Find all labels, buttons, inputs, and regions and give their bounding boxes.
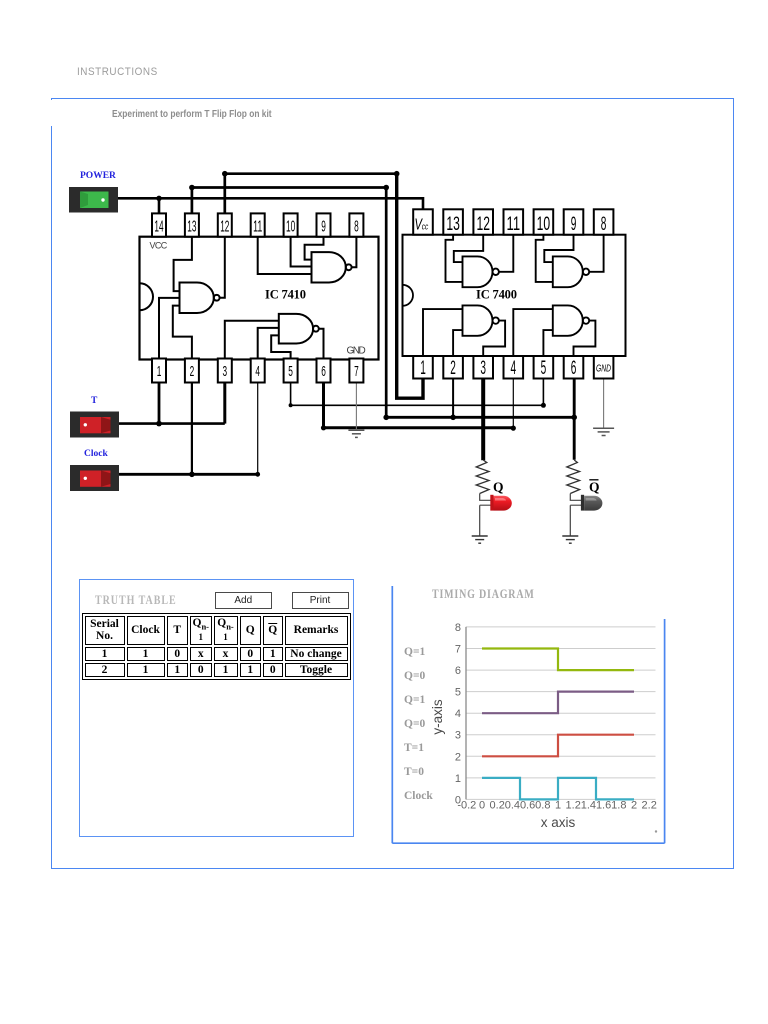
nand gate G1 IC1 [180, 283, 220, 314]
pin 9 IC1 [317, 213, 331, 236]
svg-text:T=0: T=0 [404, 766, 424, 778]
chart y axis line [465, 627, 467, 800]
wire GD input from pin4 [513, 309, 553, 356]
svg-text:Clock: Clock [404, 790, 433, 802]
timing diagram heading [432, 587, 535, 602]
svg-text:Q=1: Q=1 [404, 694, 425, 706]
pin 4 IC1 [251, 359, 265, 383]
pin 2 IC2 [443, 356, 463, 379]
pin 5 IC1 [284, 359, 298, 383]
legend labels left [404, 646, 433, 802]
wire G2 output to pin8 [352, 237, 357, 268]
svg-text:5: 5 [455, 687, 461, 699]
svg-text:2: 2 [631, 800, 637, 812]
wire IC2 GND to ground [603, 378, 605, 428]
switch T [70, 412, 119, 438]
svg-text:1.2: 1.2 [566, 800, 581, 812]
svg-text:0.2: 0.2 [490, 800, 505, 812]
nand gate GC IC2 [463, 305, 499, 335]
pin 3 IC2 [473, 356, 493, 379]
svg-text:y-axis: y-axis [430, 699, 445, 735]
chart gridlines [466, 627, 656, 800]
label Qbar [589, 480, 600, 495]
pin 10 IC2 [534, 209, 554, 235]
pin 5 IC2 [534, 356, 554, 379]
IC U2 7410 body [140, 237, 379, 360]
svg-text:8: 8 [455, 622, 461, 634]
LED Qbar [581, 495, 602, 511]
svg-text:3: 3 [455, 730, 461, 742]
label Q [493, 480, 504, 495]
nand gate GD IC2 [553, 305, 589, 335]
wire bus IC1 pin13 down [189, 185, 389, 418]
svg-text:T=1: T=1 [404, 742, 424, 754]
pin 12 IC1 [218, 213, 232, 236]
pin 13 IC2 [443, 209, 463, 235]
wire IC1 pin7 to ground [355, 380, 357, 430]
series Qbar purple [482, 692, 634, 714]
nand gate GA IC2 [463, 256, 499, 287]
IC U1 7400 body [403, 235, 626, 356]
svg-text:0.6: 0.6 [520, 800, 535, 812]
wire GC input from pin1 [423, 309, 463, 356]
svg-text:Q=1: Q=1 [404, 646, 425, 658]
wire IC1 pin1 stub [158, 380, 161, 423]
series T red [482, 735, 634, 757]
LED Q [490, 495, 512, 511]
wire G3 input from pin4 [258, 328, 279, 360]
wire G2 input from pin11 [258, 237, 312, 274]
wire G3 output to pin6 [319, 329, 324, 360]
wire GA input from pin12 [454, 235, 483, 262]
Clock label [84, 449, 108, 459]
wire GC input from pin2 [453, 330, 462, 356]
pin 6 IC2 [564, 356, 584, 379]
pin Vcc IC2 [413, 209, 433, 234]
pin 10 IC1 [284, 213, 298, 236]
svg-text:x axis: x axis [541, 815, 576, 830]
wire IC2 pin4 stub [511, 378, 516, 431]
mark small dot [655, 830, 657, 832]
ground IC2 [593, 428, 614, 435]
pin 2 IC1 [185, 359, 199, 383]
pin GND IC2 [594, 356, 614, 379]
pin 1 IC2 [413, 356, 433, 379]
pin 8 IC1 [349, 213, 363, 236]
wire power bus [118, 198, 423, 210]
wire GB input from pin9 [544, 235, 573, 262]
pin 11 IC1 [251, 213, 265, 236]
outer blue panel [51, 98, 734, 870]
nand gate G2 IC1 [312, 252, 352, 282]
wire GB output to pin8 [589, 235, 603, 272]
svg-text:0.8: 0.8 [535, 800, 550, 812]
wire G1 output to pin12 [220, 237, 225, 298]
svg-text:Q=0: Q=0 [404, 670, 425, 682]
nand gate G3 IC1 [279, 314, 319, 344]
wire IC2 pin6 to resistor [573, 378, 576, 460]
switch POWER [69, 187, 118, 213]
axis label y-axis [430, 699, 445, 735]
header text INSTRUCTIONS [77, 66, 158, 78]
svg-text:Q=0: Q=0 [404, 718, 425, 730]
wire IC1 pin5 to IC2 pin5 [289, 378, 546, 408]
wire horizontal to IC2 pin2 pin6 [383, 378, 577, 420]
svg-text:4: 4 [455, 708, 461, 720]
wire G1 input from pin13 [174, 237, 192, 291]
wire G1 input from pin2 [173, 306, 192, 360]
wire Clock line [119, 472, 260, 478]
Add button [215, 592, 273, 609]
experiment title [112, 109, 272, 120]
nand gate GB IC2 [553, 256, 589, 287]
truth table panel [79, 579, 355, 837]
wire IC1 pin2 stub [191, 380, 193, 474]
switch Clock [70, 465, 119, 491]
truth table heading [95, 593, 177, 608]
pin 12 IC2 [473, 209, 493, 235]
pin 6 IC1 [317, 359, 331, 383]
pin 7 IC1 [349, 359, 363, 383]
svg-text:0: 0 [479, 800, 485, 812]
resistor R2 [567, 460, 580, 494]
wire GB input from pin10 [536, 235, 553, 282]
wire G1 input from pin1 [159, 298, 180, 360]
wire IC1 pin4 stub [257, 380, 259, 474]
POWER label [80, 171, 116, 181]
svg-text:2: 2 [455, 751, 461, 763]
wire GD output to pin6 [574, 321, 596, 356]
svg-text:-0.2: -0.2 [457, 800, 476, 812]
wire T line [119, 421, 225, 427]
series Q green [482, 649, 634, 671]
svg-text:0.4: 0.4 [505, 800, 520, 812]
pin 4 IC2 [504, 356, 524, 379]
gap in left border [50, 100, 55, 127]
wire GA input from pin13 [446, 235, 463, 282]
pin 13 IC1 [185, 213, 199, 236]
wire IC2 pin3 to resistor [481, 378, 485, 460]
chart y tick labels [455, 622, 461, 806]
svg-text:1: 1 [455, 773, 461, 785]
Print button [292, 592, 349, 609]
svg-text:2.2: 2.2 [642, 800, 657, 812]
wire R1 to LED Q [480, 494, 491, 537]
wire IC1 pin6 to IC2 pin4 [321, 380, 513, 430]
pin 8 IC2 [594, 209, 614, 235]
wire G2 input from pin10 [291, 237, 312, 267]
chart x tick labels [457, 800, 657, 812]
wire G3 input from pin3 [225, 321, 279, 360]
ground IC1 [348, 430, 364, 437]
node power to pin14 [156, 196, 161, 214]
svg-text:1.8: 1.8 [611, 800, 626, 812]
svg-text:1.4: 1.4 [581, 800, 596, 812]
wire G2 input from pin9 [305, 237, 324, 260]
svg-text:1: 1 [555, 800, 561, 812]
truth table [82, 613, 351, 681]
axis label x axis [541, 815, 576, 830]
resistor R1 [476, 460, 489, 494]
svg-text:6: 6 [455, 665, 461, 677]
wire IC1 pin3 stub [223, 380, 226, 423]
series Clock cyan [482, 778, 634, 800]
timing panel border [392, 586, 664, 843]
ground LED Q [472, 536, 488, 543]
svg-text:7: 7 [455, 644, 461, 656]
ground LED Qbar [562, 536, 578, 543]
T label [91, 396, 98, 406]
wire bus IC1 pin12 to IC2 pin1 [222, 171, 423, 398]
pin 11 IC2 [504, 209, 524, 235]
wire GD input from pin5 [543, 330, 552, 356]
pin 9 IC2 [564, 209, 584, 235]
pin 14 IC1 [152, 213, 166, 236]
pin 1 IC1 [152, 359, 166, 383]
pin 3 IC1 [218, 359, 232, 383]
wire R2 to LED Qbar [570, 494, 581, 537]
wire GA output to pin11 [499, 235, 513, 272]
wire GC output to pin3 [483, 321, 505, 356]
svg-text:1.6: 1.6 [596, 800, 611, 812]
wire G3 input from pin5 [271, 335, 290, 359]
